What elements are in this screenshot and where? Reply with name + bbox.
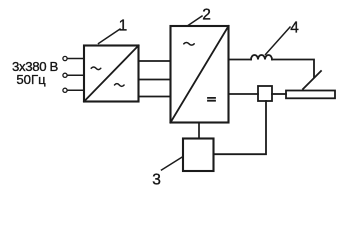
svg-text:2: 2 xyxy=(202,6,211,23)
svg-text:4: 4 xyxy=(290,19,299,36)
svg-text:50Гц: 50Гц xyxy=(16,72,46,87)
svg-text:1: 1 xyxy=(119,17,128,34)
svg-text:3: 3 xyxy=(152,172,161,189)
